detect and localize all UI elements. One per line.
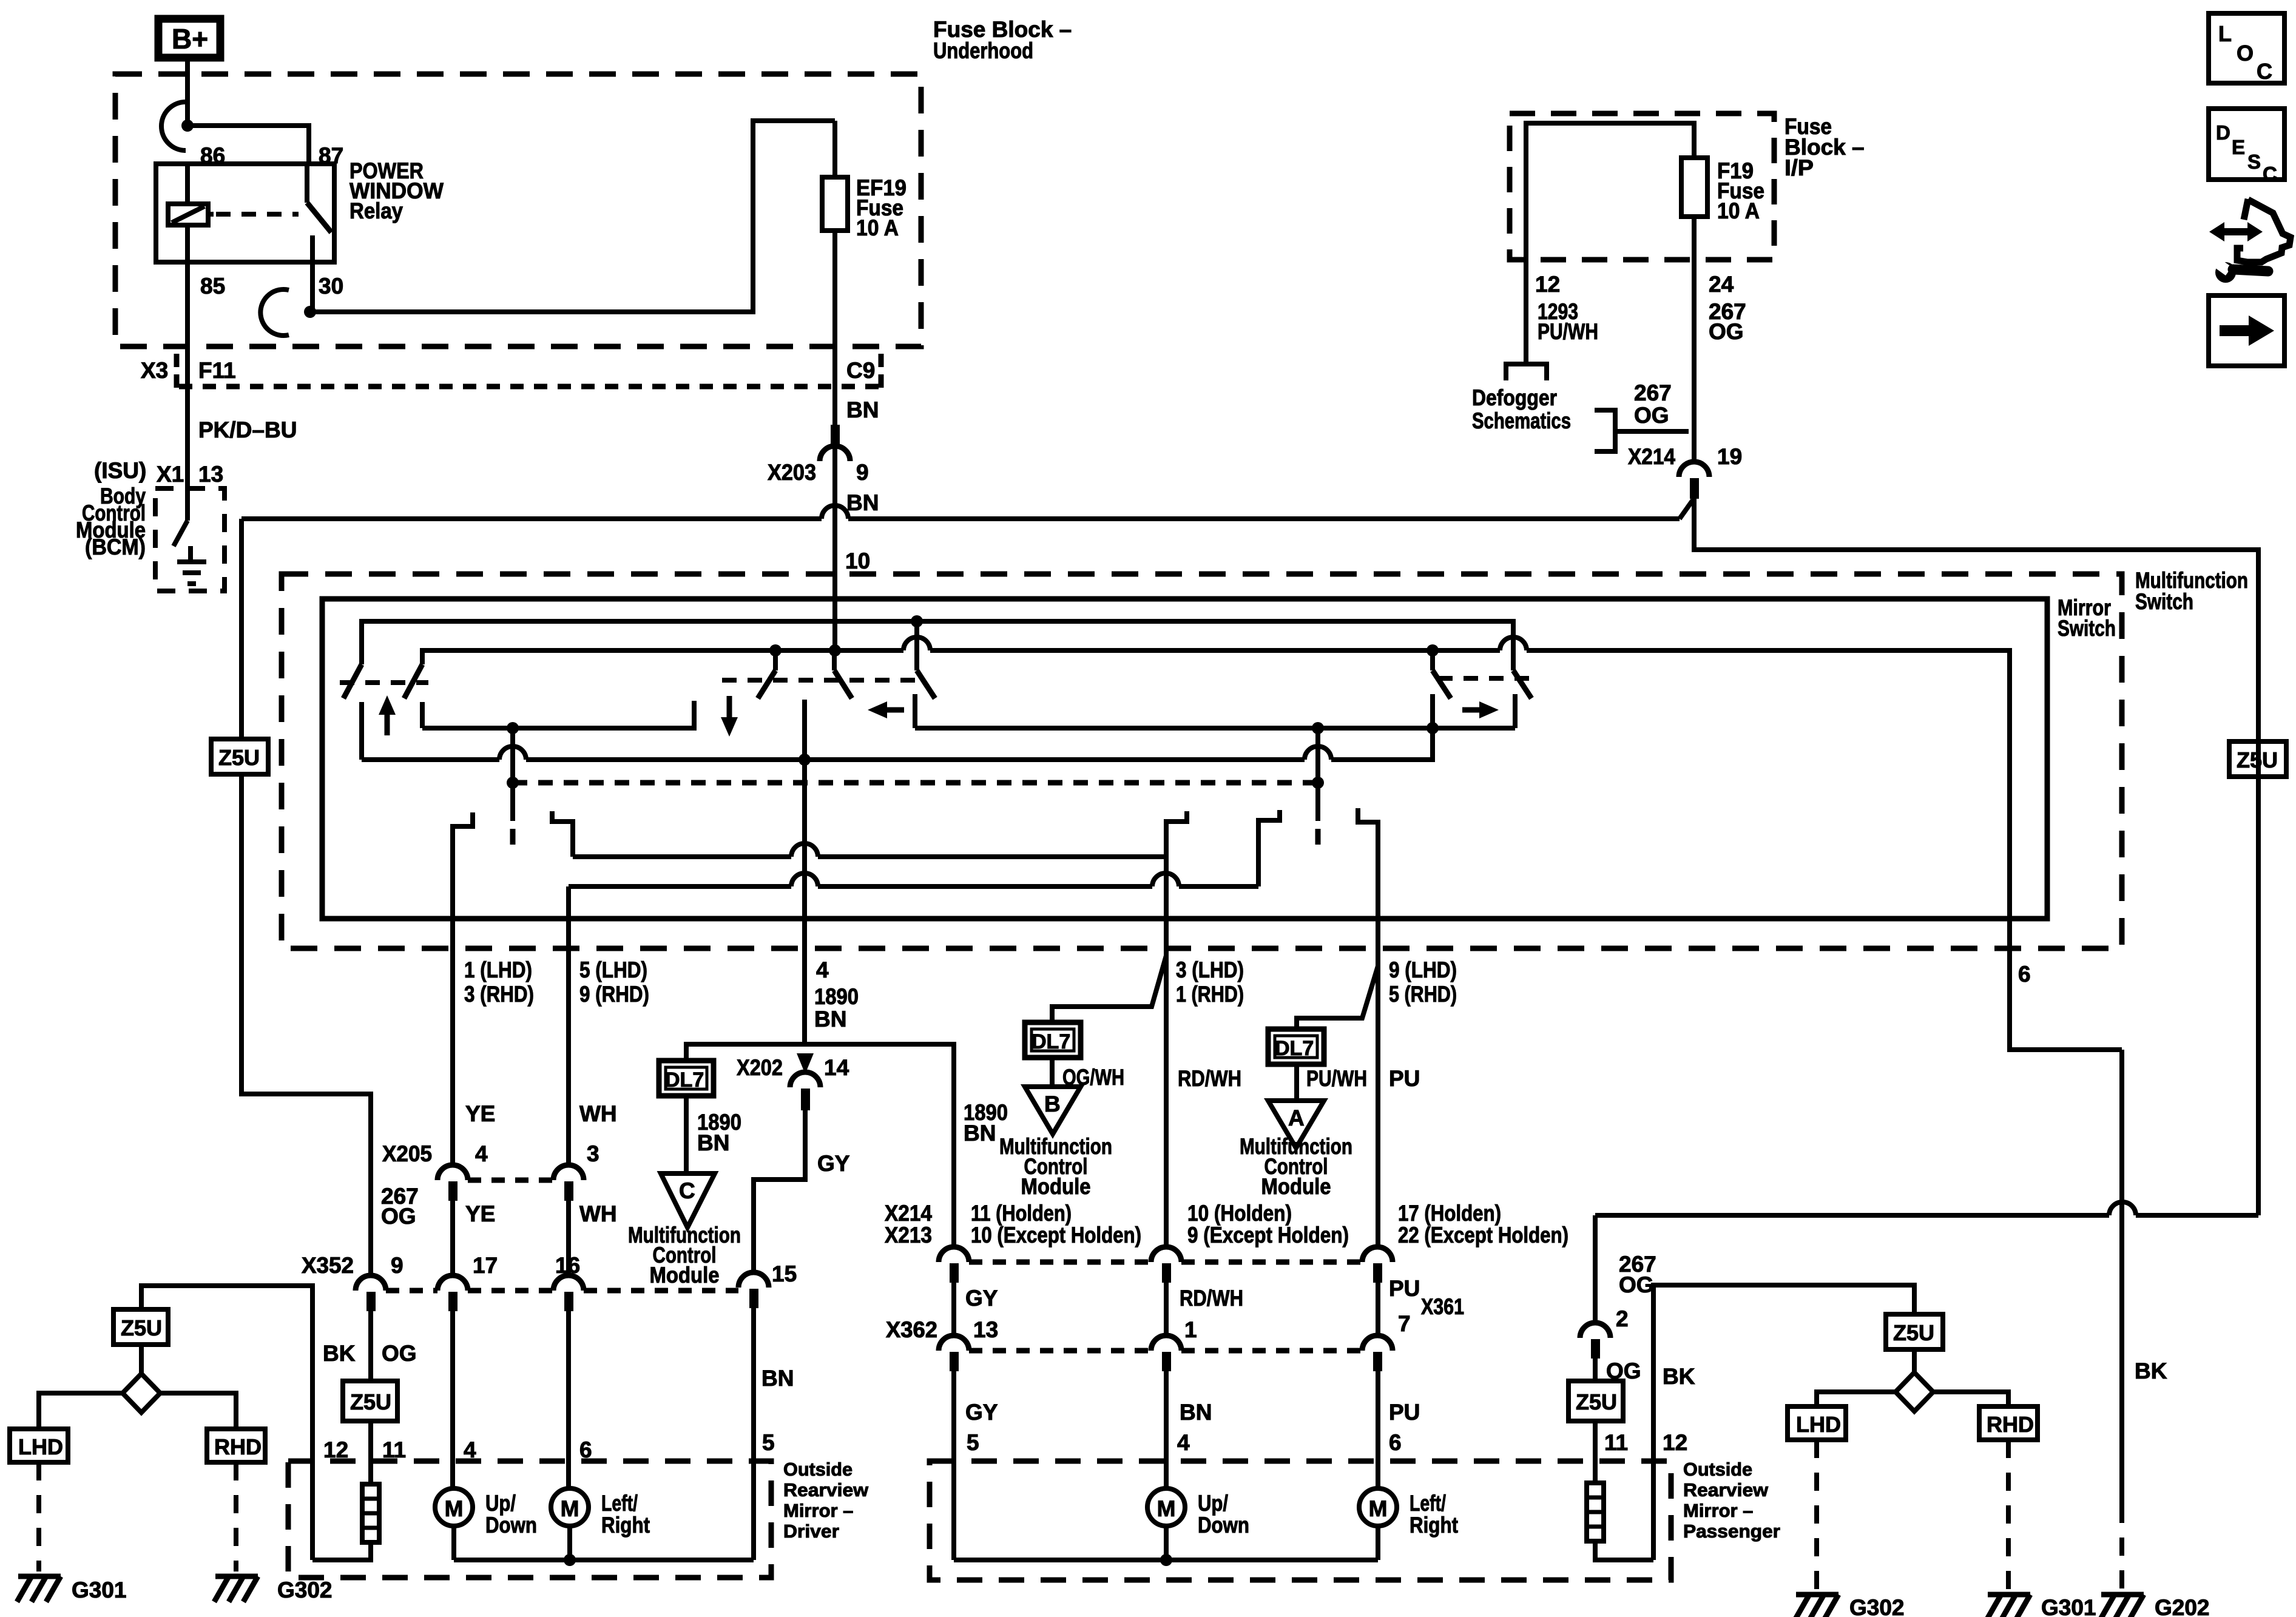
X205 connector arcs	[437, 1165, 468, 1180]
connector X203 terminal bar	[831, 425, 840, 445]
svg-text:D: D	[2216, 121, 2230, 144]
svg-text:Left/: Left/	[1410, 1491, 1446, 1516]
triangle connector C	[661, 1173, 715, 1227]
svg-text:(ISU): (ISU)	[94, 458, 146, 483]
switch cluster 4 (right)	[1427, 644, 1439, 657]
line G	[569, 884, 791, 889]
svg-text:12: 12	[1663, 1430, 1687, 1455]
defogger off-page bracket	[1506, 364, 1547, 380]
left bus corner down	[239, 519, 244, 739]
mech dotted line	[513, 780, 1318, 786]
svg-text:6: 6	[2018, 962, 2031, 987]
inner wiring	[1526, 123, 1694, 364]
mirror switch solid box	[322, 599, 2047, 919]
svg-text:9 (Except Holden): 9 (Except Holden)	[1187, 1223, 1349, 1247]
motor common wire	[1164, 1526, 1169, 1560]
outside rearview mirror passenger dashed box	[930, 1461, 1671, 1580]
svg-text:7: 7	[1398, 1311, 1411, 1336]
svg-text:Down: Down	[1198, 1513, 1249, 1538]
svg-text:Outside: Outside	[1683, 1459, 1752, 1480]
svg-text:GY: GY	[817, 1151, 850, 1176]
relay coil	[185, 164, 190, 204]
svg-text:9: 9	[391, 1253, 403, 1278]
X352 dotted row	[386, 1288, 437, 1294]
svg-text:OG: OG	[1709, 319, 1744, 344]
svg-text:13: 13	[198, 462, 223, 487]
bus hop over pin10 wire	[822, 505, 848, 519]
svg-text:BK: BK	[323, 1341, 356, 1366]
svg-text:G302: G302	[1849, 1595, 1905, 1617]
svg-text:C: C	[2257, 59, 2272, 84]
svg-text:X361: X361	[1421, 1294, 1464, 1319]
svg-text:Mirror –: Mirror –	[783, 1500, 853, 1521]
wire X202 down, jog to pin15 column	[754, 1110, 805, 1274]
wire node to EF19 fuse	[310, 121, 835, 312]
branch to LHD	[1817, 1392, 1896, 1406]
wires down to passenger mirror	[951, 1371, 956, 1560]
svg-text:5: 5	[967, 1430, 979, 1455]
svg-text:L: L	[2218, 21, 2232, 46]
svg-text:G202: G202	[2155, 1595, 2210, 1617]
svg-text:2: 2	[1616, 1306, 1629, 1331]
svg-text:17: 17	[473, 1253, 498, 1278]
svg-text:BN: BN	[761, 1366, 794, 1391]
svg-text:OG: OG	[381, 1204, 416, 1229]
svg-text:Mirror –: Mirror –	[1683, 1500, 1753, 1521]
svg-text:Z5U: Z5U	[350, 1389, 391, 1414]
line F	[573, 854, 791, 859]
svg-text:WH: WH	[579, 1101, 617, 1126]
heater resistor passenger	[1587, 1483, 1604, 1541]
svg-text:19: 19	[1717, 444, 1742, 469]
svg-text:BK: BK	[1663, 1364, 1695, 1389]
DL7 box B	[1025, 1022, 1081, 1058]
X214/X213 connector arcs	[939, 1247, 969, 1262]
X205 dotted row	[468, 1178, 553, 1183]
svg-text:X202: X202	[737, 1055, 783, 1080]
svg-text:BN: BN	[846, 397, 879, 422]
svg-text:Driver: Driver	[783, 1521, 839, 1542]
diamond split passenger	[1896, 1372, 1933, 1411]
node 30	[304, 306, 316, 318]
svg-text:4: 4	[475, 1141, 488, 1166]
svg-text:3 (RHD): 3 (RHD)	[464, 982, 534, 1007]
svg-text:267: 267	[1634, 380, 1672, 405]
wire relay 30 to node	[310, 262, 315, 309]
svg-text:OG: OG	[1634, 403, 1669, 428]
svg-text:M: M	[1157, 1496, 1176, 1521]
Z5U label box right	[2229, 741, 2286, 777]
svg-text:B+: B+	[172, 23, 208, 55]
triangle connector A	[1268, 1101, 1324, 1148]
resistor bottom loop	[312, 1542, 371, 1560]
svg-text:RHD: RHD	[1987, 1412, 2034, 1437]
X214 splice bracket	[1595, 410, 1615, 451]
BK wire pin 12	[1653, 1285, 1914, 1560]
svg-text:87: 87	[319, 143, 343, 168]
pin4 wire from line E down to X202	[802, 760, 807, 1044]
svg-text:DL7: DL7	[665, 1068, 704, 1092]
BCM dashed box	[155, 488, 225, 591]
svg-text:Module: Module	[1261, 1174, 1331, 1199]
contact finger pin9/5	[1358, 808, 1378, 1247]
svg-text:3: 3	[587, 1141, 599, 1166]
wire down and over to right side	[1694, 499, 2258, 1215]
dashed wires to grounds	[36, 1462, 41, 1571]
wire X203 to bus	[832, 461, 837, 650]
hook at node 30	[260, 289, 289, 336]
Z5U label box passenger OG	[1568, 1381, 1623, 1421]
BK wire from pin 12 up and left to Z5U	[141, 1286, 312, 1560]
X202 connector arc	[790, 1072, 820, 1087]
svg-text:Module: Module	[650, 1263, 720, 1288]
EF19 fuse wire down	[832, 121, 837, 177]
svg-text:85: 85	[200, 274, 225, 299]
svg-text:A: A	[1288, 1106, 1305, 1130]
svg-text:Underhood: Underhood	[933, 38, 1033, 63]
LHD box	[10, 1429, 68, 1462]
GoTo arrow icon box	[2209, 295, 2284, 366]
svg-text:PU/WH: PU/WH	[1306, 1066, 1367, 1091]
svg-text:YE: YE	[465, 1201, 495, 1226]
svg-text:Left/: Left/	[601, 1491, 638, 1516]
svg-text:BN: BN	[697, 1130, 729, 1155]
svg-text:M: M	[561, 1496, 579, 1521]
DL7 box A	[1268, 1029, 1324, 1064]
motor M left/right passenger	[1359, 1488, 1397, 1526]
svg-text:G301: G301	[72, 1578, 127, 1602]
contact finger line G right	[1258, 810, 1280, 886]
svg-text:G301: G301	[2041, 1595, 2096, 1617]
DL7 box A branch	[1297, 966, 1378, 1029]
svg-text:11 (Holden): 11 (Holden)	[971, 1201, 1072, 1226]
BCM switch wire	[185, 488, 190, 521]
fuse EF19	[822, 177, 848, 231]
svg-text:86: 86	[200, 143, 225, 168]
wire to Z5U passenger	[1593, 1359, 1598, 1381]
svg-text:Switch: Switch	[2135, 589, 2193, 614]
DL7 box C	[659, 1061, 714, 1096]
connector dotted line	[179, 384, 879, 390]
svg-text:X214: X214	[1628, 444, 1675, 469]
switch cluster 3 (left)	[911, 615, 923, 627]
svg-text:BN: BN	[814, 1007, 846, 1031]
contact finger to line F left	[552, 811, 573, 857]
ground G302	[214, 1576, 258, 1602]
svg-text:5 (LHD): 5 (LHD)	[579, 957, 647, 982]
svg-text:12: 12	[1535, 272, 1560, 297]
svg-text:I/P: I/P	[1784, 155, 1814, 180]
wire Z5U down and over to X352	[241, 774, 371, 1277]
motor M up/down driver	[435, 1488, 473, 1526]
svg-text:B: B	[1044, 1092, 1061, 1116]
main bus wire	[241, 516, 822, 521]
svg-text:Rearview: Rearview	[1683, 1479, 1769, 1501]
horizontal 267 OG feed	[1595, 1213, 2109, 1218]
resistor loop	[1595, 1541, 1653, 1560]
svg-text:14: 14	[824, 1055, 849, 1080]
branch to RHD	[160, 1393, 236, 1429]
triangle connector B	[1025, 1087, 1081, 1134]
svg-text:GY: GY	[965, 1286, 998, 1311]
Z5U label box passenger BK	[1886, 1314, 1943, 1349]
svg-text:PU: PU	[1389, 1276, 1420, 1301]
svg-text:Module: Module	[1021, 1174, 1091, 1199]
Z5U label box	[113, 1309, 168, 1345]
svg-text:PU: PU	[1389, 1066, 1420, 1091]
ground G202	[2100, 1595, 2144, 1617]
svg-text:F11: F11	[198, 358, 236, 383]
wire to diamond	[139, 1345, 144, 1375]
wire OG to Z5U	[368, 1311, 373, 1381]
wiper right	[1315, 728, 1320, 821]
outside rearview mirror driver dashed box	[288, 1461, 771, 1578]
svg-text:C9: C9	[846, 358, 875, 383]
svg-text:4: 4	[816, 957, 829, 982]
hop arcs on line C	[903, 637, 930, 650]
RHD box	[207, 1429, 265, 1462]
svg-text:5: 5	[762, 1430, 775, 1455]
svg-text:BN: BN	[964, 1121, 996, 1146]
svg-text:X203: X203	[768, 460, 816, 485]
fuse F19	[1681, 158, 1707, 217]
switch cluster 1 (up)	[343, 664, 362, 698]
svg-text:OG: OG	[382, 1341, 417, 1366]
svg-text:10 A: 10 A	[856, 215, 899, 240]
svg-text:6: 6	[1389, 1430, 1402, 1455]
bus diagonal to F19 connector	[1680, 500, 1693, 519]
DL7 box B branch	[1052, 956, 1166, 1022]
RHD box passenger	[1979, 1406, 2038, 1440]
svg-text:9 (LHD): 9 (LHD)	[1389, 957, 1457, 982]
svg-text:RD/WH: RD/WH	[1180, 1286, 1243, 1311]
ground G302 passenger	[1795, 1595, 1838, 1617]
svg-text:PK/D–BU: PK/D–BU	[198, 417, 297, 442]
svg-text:1 (RHD): 1 (RHD)	[1176, 982, 1244, 1007]
svg-text:GY: GY	[965, 1400, 998, 1425]
line D right	[915, 726, 1515, 731]
svg-text:3 (LHD): 3 (LHD)	[1176, 957, 1244, 982]
svg-text:PU: PU	[1389, 1400, 1420, 1425]
svg-text:RD/WH: RD/WH	[1178, 1066, 1241, 1091]
wire fuse to X203	[832, 231, 837, 461]
svg-text:PU/WH: PU/WH	[1538, 319, 1598, 344]
contact finger pin1/3	[453, 812, 473, 1165]
svg-text:10 (Except Holden): 10 (Except Holden)	[971, 1223, 1141, 1247]
svg-text:Up/: Up/	[485, 1491, 516, 1516]
wire B+ down to node	[185, 61, 190, 126]
svg-text:X3: X3	[141, 358, 168, 383]
X202 arrow	[797, 1053, 814, 1074]
Z5U label box left	[211, 739, 268, 774]
wires into driver mirror	[368, 1421, 373, 1484]
connector arc 2	[1580, 1323, 1610, 1338]
motor common wire	[451, 1526, 456, 1560]
svg-text:BN: BN	[846, 490, 879, 515]
svg-text:BK: BK	[2135, 1359, 2167, 1383]
wires between X205 and X352	[450, 1201, 455, 1277]
service tool icon: double arrow and wrench	[2209, 199, 2291, 283]
relay actuator dashed link	[216, 212, 299, 217]
wire DL7 to triangle A	[1294, 1064, 1299, 1101]
svg-text:S: S	[2247, 150, 2261, 173]
svg-text:Up/: Up/	[1198, 1491, 1228, 1516]
svg-text:C: C	[2263, 163, 2277, 185]
svg-text:DL7: DL7	[1032, 1030, 1070, 1053]
svg-text:1 (LHD): 1 (LHD)	[464, 957, 532, 982]
svg-text:9 (RHD): 9 (RHD)	[579, 982, 649, 1007]
svg-text:Z5U: Z5U	[2237, 748, 2278, 772]
svg-text:DL7: DL7	[1275, 1037, 1314, 1060]
X362/X361 connector arcs	[939, 1335, 969, 1351]
dotted row X214/X213	[969, 1260, 1151, 1265]
ground G301	[17, 1576, 61, 1602]
svg-text:OG: OG	[1619, 1272, 1654, 1297]
fuse block underhood dashed box	[115, 74, 921, 346]
BCM ground symbol	[188, 546, 193, 562]
svg-text:Z5U: Z5U	[121, 1315, 162, 1340]
X202 branch wire	[686, 1044, 954, 1247]
svg-text:Passenger: Passenger	[1683, 1521, 1780, 1542]
svg-text:Z5U: Z5U	[218, 745, 260, 770]
connector X203 arc	[820, 446, 850, 461]
switch cluster 2 (down)	[769, 644, 782, 657]
dotted row X362	[969, 1348, 1151, 1354]
svg-text:10: 10	[845, 549, 870, 573]
relay K box	[156, 164, 334, 262]
node pin10 on line C	[829, 644, 841, 657]
pin5/9 wire down	[566, 886, 571, 1165]
LHD box passenger	[1788, 1406, 1846, 1440]
ground G301 passenger	[1987, 1595, 2030, 1617]
heater resistor	[362, 1484, 379, 1542]
svg-text:X1: X1	[157, 462, 184, 487]
wire to diamond	[1912, 1349, 1917, 1374]
svg-text:BN: BN	[1180, 1400, 1212, 1425]
X352 connector arcs	[356, 1275, 386, 1291]
Z5U label box driver	[343, 1381, 397, 1421]
contact finger above pin3/1	[1166, 811, 1187, 857]
svg-text:Right: Right	[601, 1513, 650, 1538]
BK wire right side down	[2119, 1050, 2124, 1505]
svg-text:C: C	[679, 1178, 695, 1203]
svg-text:(BCM): (BCM)	[85, 535, 146, 559]
nodes on line D	[507, 722, 519, 734]
svg-text:X205: X205	[382, 1141, 432, 1166]
terminal bar	[801, 1089, 810, 1110]
svg-text:4: 4	[1177, 1430, 1190, 1455]
multifunction switch dashed box	[282, 574, 2122, 948]
wire Z5U to resistor	[1593, 1421, 1598, 1483]
svg-text:G302: G302	[277, 1578, 333, 1602]
svg-text:1: 1	[1184, 1317, 1197, 1342]
svg-text:X213: X213	[885, 1223, 932, 1247]
line B	[362, 621, 1513, 664]
svg-text:17 (Holden): 17 (Holden)	[1398, 1201, 1501, 1226]
svg-text:22 (Except Holden): 22 (Except Holden)	[1398, 1223, 1568, 1247]
svg-text:1890: 1890	[814, 984, 859, 1009]
line E	[362, 757, 499, 762]
svg-text:X352: X352	[302, 1253, 354, 1278]
svg-text:Defogger: Defogger	[1472, 385, 1557, 410]
svg-text:Relay: Relay	[349, 198, 403, 223]
svg-text:10 A: 10 A	[1717, 198, 1760, 223]
branch to RHD	[1933, 1392, 2008, 1406]
svg-text:Down: Down	[485, 1513, 537, 1538]
svg-text:X214: X214	[885, 1201, 932, 1226]
branch to LHD	[39, 1393, 123, 1429]
svg-text:E: E	[2232, 136, 2245, 158]
svg-text:Z5U: Z5U	[1893, 1320, 1934, 1345]
svg-text:LHD: LHD	[18, 1434, 63, 1459]
line D left	[422, 701, 694, 728]
svg-text:M: M	[1369, 1496, 1388, 1521]
svg-text:YE: YE	[465, 1101, 495, 1126]
svg-text:30: 30	[319, 274, 343, 299]
svg-text:24: 24	[1709, 272, 1734, 297]
svg-text:Rearview: Rearview	[783, 1479, 869, 1501]
svg-text:15: 15	[772, 1261, 797, 1286]
svg-text:Right: Right	[1410, 1513, 1458, 1538]
svg-text:Schematics: Schematics	[1472, 408, 1571, 433]
svg-text:LHD: LHD	[1796, 1412, 1841, 1437]
wire relay 85 down to BCM	[185, 262, 190, 488]
wire down to connector 2	[1593, 1215, 1598, 1323]
DESC icon box	[2209, 109, 2284, 180]
svg-text:WH: WH	[579, 1201, 617, 1226]
svg-text:Outside: Outside	[783, 1459, 853, 1480]
svg-text:Z5U: Z5U	[1576, 1389, 1617, 1414]
diamond split	[123, 1374, 160, 1413]
svg-text:M: M	[445, 1496, 464, 1521]
terminal bar	[1690, 478, 1699, 499]
relay switch contact	[305, 164, 309, 203]
fuse block IP dashed box	[1510, 113, 1774, 260]
svg-text:Switch: Switch	[2058, 616, 2116, 641]
hook symbol at node	[161, 102, 186, 150]
svg-text:13: 13	[973, 1317, 998, 1342]
svg-text:RHD: RHD	[214, 1434, 262, 1459]
wire DL7 to triangle B	[1050, 1058, 1055, 1087]
wire F19 down	[1692, 217, 1697, 462]
motor M up/down passenger	[1147, 1488, 1185, 1526]
svg-text:O: O	[2237, 41, 2254, 66]
line C	[422, 650, 903, 664]
connector X214-19 arc	[1679, 462, 1709, 477]
wire DL7 to triangle C	[684, 1096, 689, 1173]
wire node to relay pin 87	[187, 126, 309, 164]
node at B+ branch	[181, 120, 194, 132]
pin3/1 wire down	[1164, 857, 1169, 1247]
wiper left	[510, 728, 515, 821]
svg-text:X362: X362	[886, 1317, 937, 1342]
svg-text:10 (Holden): 10 (Holden)	[1187, 1201, 1292, 1226]
battery B+ symbol	[158, 19, 220, 58]
wires between rows	[951, 1283, 956, 1335]
LOC icon box	[2209, 13, 2284, 83]
svg-text:9: 9	[856, 460, 869, 485]
motor M left/right driver	[551, 1488, 589, 1526]
svg-text:5 (RHD): 5 (RHD)	[1389, 982, 1457, 1007]
svg-text:11: 11	[1604, 1430, 1628, 1455]
dashed wires to grounds	[1814, 1440, 1819, 1590]
